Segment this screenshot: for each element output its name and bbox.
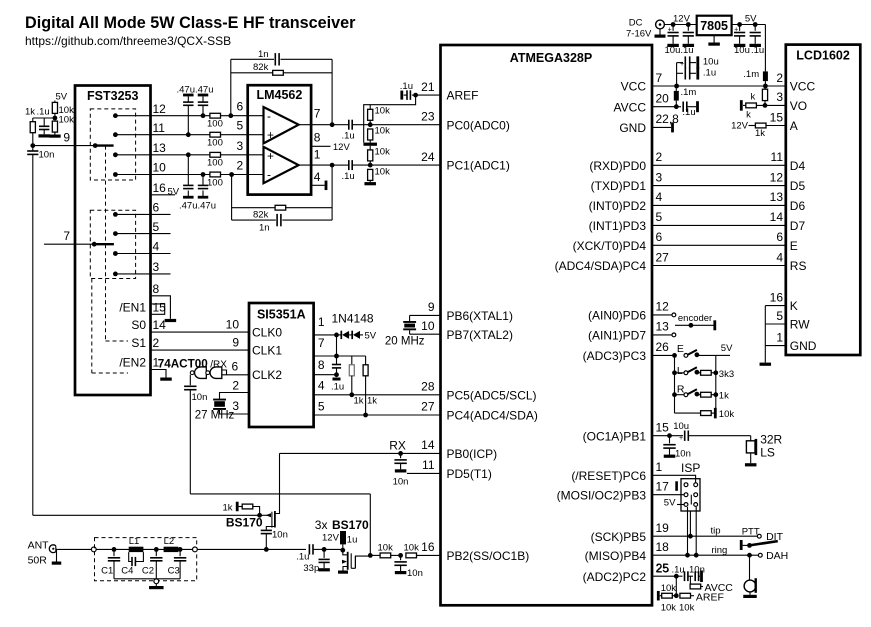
svg-text:10k: 10k [661, 583, 677, 594]
svg-text:GND: GND [619, 121, 646, 135]
svg-text:LCD1602: LCD1602 [796, 49, 850, 63]
svg-text:PB6(XTAL1): PB6(XTAL1) [447, 309, 513, 323]
svg-text:16: 16 [421, 540, 435, 554]
svg-text:2: 2 [153, 336, 160, 350]
svg-text:10n: 10n [192, 392, 208, 403]
svg-text:13: 13 [770, 190, 784, 204]
svg-text:K: K [790, 299, 798, 313]
svg-text:21: 21 [421, 80, 435, 94]
svg-text:RX: RX [389, 438, 406, 452]
svg-text:8: 8 [314, 131, 321, 145]
svg-text:D5: D5 [790, 179, 806, 193]
svg-text:23: 23 [421, 110, 435, 124]
svg-text:25: 25 [656, 561, 670, 575]
svg-text:VO: VO [790, 99, 807, 113]
svg-text:10k: 10k [661, 602, 677, 613]
svg-text:FST3253: FST3253 [87, 89, 138, 103]
svg-text:6: 6 [153, 201, 160, 215]
svg-text:(SCK)PB5: (SCK)PB5 [591, 530, 647, 544]
svg-text:100: 100 [207, 118, 223, 129]
svg-text:19: 19 [656, 521, 670, 535]
svg-text:14: 14 [421, 438, 435, 452]
svg-text:5: 5 [776, 309, 783, 323]
svg-text:10n: 10n [272, 530, 288, 541]
svg-text:7805: 7805 [700, 19, 728, 33]
svg-text:AREF: AREF [447, 89, 479, 103]
svg-text:5V: 5V [721, 343, 733, 354]
svg-text:C2: C2 [142, 566, 154, 577]
svg-text:.47u.47u: .47u.47u [179, 201, 216, 212]
svg-text:ANT: ANT [28, 540, 50, 552]
svg-text:7-16V: 7-16V [626, 29, 652, 40]
svg-text:10k: 10k [378, 542, 394, 553]
svg-text:PC4(ADC4/SDA): PC4(ADC4/SDA) [447, 408, 538, 422]
svg-text:16: 16 [153, 181, 167, 195]
svg-text:50R: 50R [28, 554, 48, 566]
svg-text:24: 24 [421, 150, 435, 164]
svg-text:tip: tip [711, 525, 721, 536]
svg-text:C3: C3 [168, 566, 180, 577]
svg-text:D7: D7 [790, 219, 806, 233]
svg-text:10u.1u: 10u.1u [665, 45, 694, 56]
svg-text:6: 6 [237, 100, 244, 114]
svg-text:10u: 10u [734, 45, 750, 56]
svg-text:C1: C1 [101, 566, 113, 577]
svg-text:10k: 10k [404, 542, 420, 553]
svg-text:18: 18 [656, 540, 670, 554]
svg-text:6: 6 [232, 360, 239, 374]
svg-text:VCC: VCC [790, 80, 816, 94]
svg-text:LM4562: LM4562 [256, 88, 302, 102]
svg-text:33p: 33p [303, 563, 319, 574]
svg-text:1n: 1n [259, 223, 270, 234]
svg-text:12V: 12V [731, 121, 749, 132]
svg-text:10n: 10n [407, 568, 423, 579]
svg-text:4: 4 [153, 240, 160, 254]
svg-text:+: + [267, 128, 274, 142]
svg-text:7: 7 [63, 229, 70, 243]
svg-text:12: 12 [770, 170, 784, 184]
svg-text:13: 13 [656, 320, 670, 334]
svg-text:.1u: .1u [331, 382, 344, 393]
svg-text:LS: LS [760, 445, 775, 459]
svg-text:+: + [679, 435, 683, 442]
svg-text:DC: DC [629, 18, 643, 29]
svg-text:10: 10 [421, 319, 435, 333]
svg-text:+: + [668, 27, 672, 34]
svg-text:10: 10 [226, 318, 240, 332]
svg-text:+: + [734, 27, 738, 34]
svg-text:15: 15 [153, 300, 167, 314]
svg-text:10n: 10n [393, 477, 409, 488]
svg-text:L: L [677, 365, 683, 377]
svg-text:100: 100 [207, 158, 223, 169]
svg-text:.1u: .1u [342, 171, 355, 182]
svg-text:15: 15 [770, 110, 784, 124]
svg-text:5: 5 [237, 119, 244, 133]
svg-text:5: 5 [153, 220, 160, 234]
svg-text:1k: 1k [367, 396, 377, 407]
svg-text:(/RESET)PC6: (/RESET)PC6 [571, 469, 646, 483]
svg-text:4: 4 [656, 190, 663, 204]
svg-text:/EN1: /EN1 [119, 300, 146, 314]
svg-text:10k: 10k [679, 602, 695, 613]
svg-text:(ADC4/SDA)PC4: (ADC4/SDA)PC4 [555, 259, 647, 273]
svg-text:https://github.com/threeme3/QC: https://github.com/threeme3/QCX-SSB [25, 34, 231, 48]
svg-text:1k: 1k [354, 396, 364, 407]
svg-text:k: k [746, 110, 751, 121]
svg-text:11: 11 [153, 121, 166, 135]
svg-text:10k: 10k [375, 147, 391, 158]
svg-text:7: 7 [656, 71, 663, 85]
svg-text:3: 3 [237, 139, 244, 153]
svg-text:5: 5 [318, 400, 325, 414]
svg-text:PC1(ADC1): PC1(ADC1) [447, 159, 510, 173]
svg-text:4: 4 [318, 379, 325, 393]
svg-text:.1u: .1u [296, 552, 309, 563]
svg-text:(ADC2)PC2: (ADC2)PC2 [583, 570, 647, 584]
svg-text:RW: RW [790, 318, 810, 332]
svg-text:(XCK/T0)PD4: (XCK/T0)PD4 [573, 239, 647, 253]
svg-text:3: 3 [776, 90, 783, 104]
svg-text:PB2(SS/OC1B): PB2(SS/OC1B) [447, 549, 530, 563]
svg-text:5: 5 [656, 210, 663, 224]
svg-text:7: 7 [318, 336, 325, 350]
svg-text:1n: 1n [258, 49, 269, 60]
svg-text:+: + [680, 61, 684, 68]
svg-text:27: 27 [421, 400, 435, 414]
svg-text:6: 6 [656, 230, 663, 244]
svg-text:11: 11 [422, 458, 435, 472]
svg-text:16: 16 [770, 290, 784, 304]
svg-text:14: 14 [153, 318, 167, 332]
svg-text:2: 2 [656, 150, 663, 164]
svg-text:(OC1A)PB1: (OC1A)PB1 [583, 429, 647, 443]
svg-text:8: 8 [318, 358, 325, 372]
svg-text:(MOSI/OC2)PB3: (MOSI/OC2)PB3 [557, 488, 647, 502]
svg-text:1k: 1k [719, 391, 729, 402]
svg-text:.1u: .1u [400, 81, 413, 92]
svg-text:E: E [677, 343, 684, 355]
svg-text:ATMEGA328P: ATMEGA328P [510, 51, 592, 65]
svg-text:5V: 5V [56, 92, 68, 103]
svg-text:12V: 12V [333, 142, 351, 153]
svg-text:27 MHz: 27 MHz [195, 410, 235, 422]
svg-text:3: 3 [656, 170, 663, 184]
svg-text:1: 1 [656, 460, 663, 474]
svg-text:(AIN1)PD7: (AIN1)PD7 [588, 329, 646, 343]
svg-text:1k: 1k [755, 128, 765, 139]
svg-text:PB7(XTAL2): PB7(XTAL2) [447, 328, 513, 342]
svg-text:/EN2: /EN2 [119, 356, 146, 370]
svg-text:14: 14 [770, 210, 784, 224]
svg-text:PC0(ADC0): PC0(ADC0) [447, 118, 510, 132]
svg-text:Digital All Mode 5W Class-E HF: Digital All Mode 5W Class-E HF transceiv… [25, 14, 356, 32]
svg-text:2: 2 [237, 159, 244, 173]
svg-text:10u: 10u [673, 421, 689, 432]
svg-text:5V: 5V [365, 331, 377, 342]
svg-text:15: 15 [656, 421, 670, 435]
svg-text:1k: 1k [223, 503, 233, 514]
svg-text:3k3: 3k3 [719, 369, 734, 380]
svg-text:CLK1: CLK1 [252, 343, 282, 357]
svg-text:BS170: BS170 [332, 518, 369, 532]
svg-text:10k: 10k [375, 106, 391, 117]
svg-text:22,8: 22,8 [656, 112, 680, 126]
svg-text:encoder: encoder [678, 313, 712, 324]
svg-text:(AIN0)PD6: (AIN0)PD6 [588, 309, 646, 323]
svg-text:10k: 10k [719, 409, 735, 420]
svg-text:PC5(ADC5/SCL): PC5(ADC5/SCL) [447, 388, 537, 402]
svg-text:10k: 10k [375, 126, 391, 137]
svg-text:CLK0: CLK0 [252, 325, 282, 339]
svg-text:5V: 5V [168, 187, 180, 198]
svg-text:(INT0)PD2: (INT0)PD2 [589, 199, 647, 213]
svg-text:100: 100 [207, 138, 223, 149]
svg-text:20 MHz: 20 MHz [385, 336, 425, 348]
svg-text:.1u: .1u [37, 107, 50, 118]
svg-text:.1u: .1u [751, 45, 764, 56]
svg-text:4: 4 [776, 250, 783, 264]
svg-text:1u: 1u [347, 534, 358, 545]
svg-text:5V: 5V [664, 497, 676, 508]
svg-text:AREF: AREF [696, 592, 724, 604]
svg-text:10n: 10n [675, 448, 691, 459]
svg-text:9: 9 [63, 131, 70, 145]
svg-text:S0: S0 [131, 318, 146, 332]
svg-text:2: 2 [232, 378, 239, 392]
svg-text:(ADC3)PC3: (ADC3)PC3 [583, 349, 647, 363]
svg-text:AVCC: AVCC [614, 100, 647, 114]
svg-text:27: 27 [656, 250, 670, 264]
svg-text:ISP: ISP [681, 461, 700, 475]
svg-text:ring: ring [712, 545, 728, 556]
svg-text:7: 7 [314, 107, 321, 121]
svg-text:PD5(T1): PD5(T1) [447, 467, 492, 481]
svg-text:-: - [267, 168, 271, 182]
svg-text:D4: D4 [790, 159, 806, 173]
svg-text:4: 4 [314, 170, 321, 184]
svg-text:10n: 10n [39, 150, 55, 161]
svg-text:3: 3 [153, 260, 160, 274]
svg-text:.1u: .1u [672, 564, 685, 575]
svg-text:10u: 10u [703, 57, 719, 68]
svg-text:6: 6 [776, 230, 783, 244]
svg-text:82k: 82k [253, 210, 269, 221]
svg-text:.1m: .1m [743, 69, 759, 80]
svg-text:DAH: DAH [766, 550, 788, 562]
svg-text:.1u: .1u [342, 130, 355, 141]
svg-text:.1u: .1u [682, 107, 695, 118]
svg-text:12V: 12V [322, 532, 340, 543]
svg-text:12: 12 [656, 300, 670, 314]
svg-text:1k: 1k [25, 107, 35, 118]
svg-text:+: + [267, 149, 274, 163]
svg-text:26: 26 [656, 340, 670, 354]
svg-text:2: 2 [776, 71, 783, 85]
svg-text:.1m: .1m [681, 87, 697, 98]
svg-text:S1: S1 [131, 336, 146, 350]
svg-text:100: 100 [207, 178, 223, 189]
svg-text:(INT1)PD3: (INT1)PD3 [589, 219, 647, 233]
svg-text:28: 28 [421, 380, 435, 394]
svg-text:10k: 10k [59, 115, 75, 126]
svg-text:SI5351A: SI5351A [257, 308, 306, 322]
svg-text:(TXD)PD1: (TXD)PD1 [591, 179, 647, 193]
svg-text:C4: C4 [121, 566, 133, 577]
svg-text:(RXD)PD0: (RXD)PD0 [589, 159, 646, 173]
svg-text:32R: 32R [760, 432, 782, 446]
svg-text:9: 9 [232, 336, 239, 350]
svg-text:1: 1 [776, 330, 783, 344]
svg-text:RS: RS [790, 259, 807, 273]
svg-text:D6: D6 [790, 199, 806, 213]
svg-text:1: 1 [318, 315, 325, 329]
svg-text:L2: L2 [164, 536, 175, 547]
svg-text:.1u: .1u [703, 68, 716, 79]
svg-text:k: k [751, 91, 756, 102]
svg-text:3x: 3x [315, 518, 328, 532]
svg-text:A: A [790, 119, 798, 133]
svg-text:VCC: VCC [621, 80, 647, 94]
svg-text:8: 8 [153, 282, 160, 296]
svg-text:10k: 10k [375, 167, 391, 178]
svg-text:-: - [267, 109, 271, 123]
svg-text:9: 9 [428, 300, 435, 314]
svg-text:E: E [790, 239, 798, 253]
svg-text:CLK2: CLK2 [252, 368, 282, 382]
svg-text:82k: 82k [253, 62, 269, 73]
svg-text:L1: L1 [129, 536, 140, 547]
svg-text:10: 10 [153, 161, 167, 175]
svg-text:20: 20 [656, 92, 670, 106]
svg-text:11: 11 [771, 150, 784, 164]
svg-text:12: 12 [153, 102, 167, 116]
svg-text:GND: GND [790, 339, 817, 353]
svg-text:1N4148: 1N4148 [332, 312, 374, 326]
svg-text:1: 1 [314, 148, 321, 162]
svg-text:PB0(ICP): PB0(ICP) [447, 447, 498, 461]
svg-text:(MISO)PB4: (MISO)PB4 [585, 549, 647, 563]
svg-text:17: 17 [656, 480, 670, 494]
svg-text:BS170: BS170 [226, 516, 263, 530]
svg-text:13: 13 [153, 141, 167, 155]
